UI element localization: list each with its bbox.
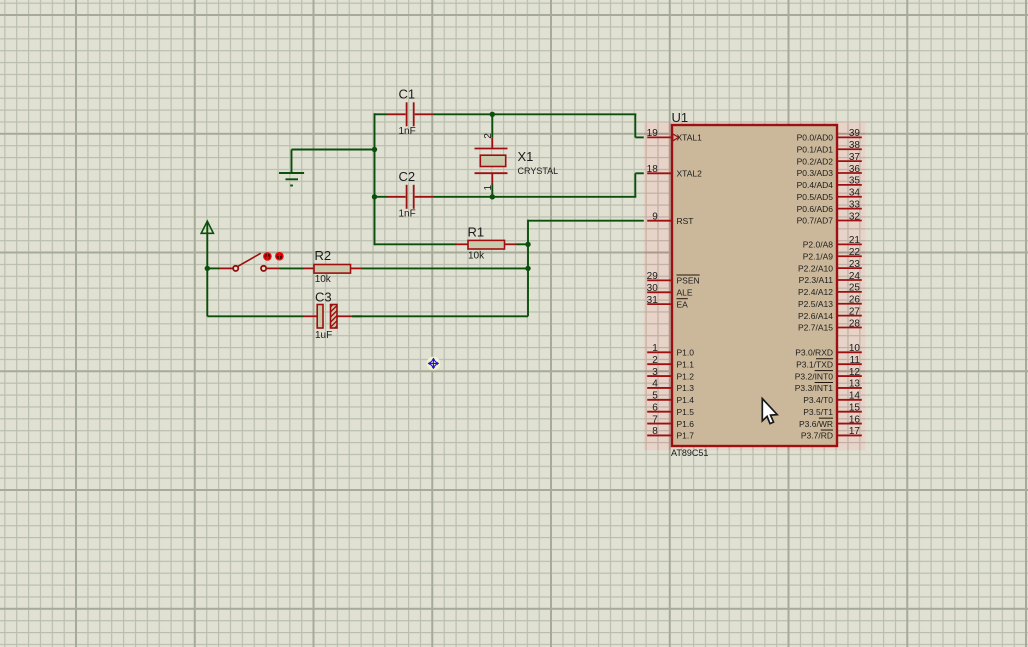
svg-text:X1: X1 bbox=[518, 149, 534, 164]
svg-text:P1.5: P1.5 bbox=[677, 407, 695, 417]
svg-text:15: 15 bbox=[849, 402, 861, 413]
pin 19 XTAL1 bbox=[647, 128, 702, 142]
pin 8 P1.7 bbox=[647, 426, 694, 440]
svg-text:30: 30 bbox=[647, 283, 659, 294]
svg-text:21: 21 bbox=[849, 235, 861, 246]
node junction ground-rail bbox=[372, 147, 377, 152]
svg-text:12: 12 bbox=[849, 367, 861, 378]
wire ground horizontal bbox=[292, 149, 375, 151]
svg-text:PSEN: PSEN bbox=[677, 276, 700, 286]
switch actuator arrow up bbox=[275, 252, 284, 261]
svg-text:P3.6/WR: P3.6/WR bbox=[799, 419, 833, 429]
wire C3 right bbox=[352, 315, 362, 317]
pin 6 P1.5 bbox=[647, 402, 694, 416]
switch lever bbox=[238, 253, 261, 266]
svg-text:P0.0/AD0: P0.0/AD0 bbox=[797, 133, 834, 143]
pin 30 ALE bbox=[647, 283, 693, 297]
ground bbox=[279, 150, 304, 186]
pin 25 P2.4/A12 bbox=[798, 283, 862, 297]
pin 4 P1.3 bbox=[647, 379, 694, 393]
wire switch to R2 bbox=[280, 267, 304, 269]
svg-text:37: 37 bbox=[849, 152, 861, 163]
svg-text:35: 35 bbox=[849, 176, 861, 187]
svg-text:31: 31 bbox=[647, 295, 659, 306]
svg-text:36: 36 bbox=[849, 164, 861, 175]
pin 35 P0.4/AD4 bbox=[797, 176, 862, 190]
node junction crystal top bbox=[490, 112, 495, 117]
svg-text:34: 34 bbox=[849, 188, 861, 199]
svg-text:P3.1/TXD: P3.1/TXD bbox=[796, 359, 833, 369]
svg-text:1nF: 1nF bbox=[399, 126, 416, 137]
svg-text:33: 33 bbox=[849, 199, 861, 210]
svg-text:P1.2: P1.2 bbox=[677, 371, 695, 381]
svg-text:P2.4/A12: P2.4/A12 bbox=[798, 287, 833, 297]
svg-text:P1.0: P1.0 bbox=[677, 348, 695, 358]
svg-text:P0.7/AD7: P0.7/AD7 bbox=[797, 216, 834, 226]
pin 21 P2.0/A8 bbox=[803, 235, 862, 249]
svg-text:3: 3 bbox=[652, 367, 658, 378]
svg-text:1uF: 1uF bbox=[315, 330, 332, 341]
pin 1 P1.0 bbox=[647, 343, 694, 357]
svg-text:P1.3: P1.3 bbox=[677, 383, 695, 393]
svg-text:32: 32 bbox=[849, 211, 861, 222]
svg-text:7: 7 bbox=[652, 414, 658, 425]
pin 7 P1.6 bbox=[647, 414, 694, 428]
svg-text:38: 38 bbox=[849, 140, 861, 151]
svg-text:13: 13 bbox=[849, 379, 861, 390]
node junction R2-RST bbox=[525, 266, 530, 271]
pin 11 P3.1/TXD bbox=[796, 355, 862, 369]
svg-text:8: 8 bbox=[652, 426, 658, 437]
svg-text:U1: U1 bbox=[672, 110, 689, 125]
pin 26 P2.5/A13 bbox=[798, 295, 862, 309]
svg-text:R2: R2 bbox=[315, 248, 332, 263]
svg-text:C1: C1 bbox=[399, 87, 416, 102]
pin 24 P2.3/A11 bbox=[799, 271, 862, 285]
svg-text:P2.0/A8: P2.0/A8 bbox=[803, 240, 834, 250]
wire R1 row bbox=[375, 243, 457, 245]
pin 13 P3.3/INT1 bbox=[795, 379, 862, 393]
pin 16 P3.6/WR bbox=[799, 414, 862, 428]
pin 3 P1.2 bbox=[647, 367, 694, 381]
svg-text:XTAL1: XTAL1 bbox=[677, 133, 703, 143]
wire crystal top green bbox=[491, 114, 493, 137]
pin 32 P0.7/AD7 bbox=[797, 211, 862, 225]
svg-text:P3.3/INT1: P3.3/INT1 bbox=[795, 383, 834, 393]
pin 28 P2.7/A15 bbox=[798, 318, 862, 332]
node junction C2-rail bbox=[372, 194, 377, 199]
pin 27 P2.6/A14 bbox=[798, 306, 862, 320]
pin 15 P3.5/T1 bbox=[803, 402, 862, 416]
svg-text:22: 22 bbox=[849, 247, 861, 258]
svg-text:P2.5/A13: P2.5/A13 bbox=[798, 299, 833, 309]
wire power rail to switch bbox=[206, 221, 208, 269]
power flag bbox=[201, 221, 213, 233]
svg-text:25: 25 bbox=[849, 283, 861, 294]
svg-text:P3.4/T0: P3.4/T0 bbox=[803, 395, 833, 405]
svg-text:27: 27 bbox=[849, 306, 861, 317]
wire C2 right to XTAL2 bbox=[434, 196, 637, 198]
svg-text:C2: C2 bbox=[399, 169, 416, 184]
svg-text:P2.6/A14: P2.6/A14 bbox=[798, 311, 833, 321]
svg-text:XTAL2: XTAL2 bbox=[677, 169, 703, 179]
pin 39 P0.0/AD0 bbox=[797, 128, 862, 142]
switch contact right bbox=[261, 266, 266, 271]
svg-text:5: 5 bbox=[652, 391, 658, 402]
switch actuator arrow down bbox=[263, 252, 272, 261]
svg-text:P0.1/AD1: P0.1/AD1 bbox=[797, 144, 834, 154]
svg-text:18: 18 bbox=[647, 164, 659, 175]
pin 2 P1.1 bbox=[647, 355, 694, 369]
svg-text:4: 4 bbox=[652, 379, 658, 390]
svg-text:P2.1/A9: P2.1/A9 bbox=[803, 251, 834, 261]
svg-text:17: 17 bbox=[849, 426, 861, 437]
svg-text:P3.0/RXD: P3.0/RXD bbox=[795, 348, 833, 358]
wire C2 left bbox=[375, 196, 388, 198]
svg-text:10k: 10k bbox=[315, 274, 332, 285]
svg-text:P0.4/AD4: P0.4/AD4 bbox=[797, 180, 834, 190]
chip selection highlight bbox=[644, 122, 865, 450]
svg-text:CRYSTAL: CRYSTAL bbox=[518, 166, 559, 176]
wire R1 right bbox=[517, 243, 529, 245]
pin 33 P0.6/AD6 bbox=[797, 199, 862, 213]
svg-text:10k: 10k bbox=[468, 251, 485, 262]
svg-text:24: 24 bbox=[849, 271, 861, 282]
svg-text:11: 11 bbox=[850, 355, 861, 366]
svg-text:P3.7/RD: P3.7/RD bbox=[801, 431, 833, 441]
pin 29 PSEN bbox=[647, 271, 700, 285]
svg-text:EA: EA bbox=[677, 299, 689, 309]
svg-text:9: 9 bbox=[652, 212, 658, 223]
pin 31 EA bbox=[647, 295, 688, 309]
svg-text:P1.1: P1.1 bbox=[677, 359, 695, 369]
node junction crystal bottom bbox=[490, 194, 495, 199]
pin 18 XTAL2 bbox=[647, 164, 702, 178]
pin 36 P0.3/AD3 bbox=[797, 164, 862, 178]
capacitor C2 bbox=[387, 185, 434, 209]
svg-text:19: 19 bbox=[647, 128, 659, 139]
svg-text:2: 2 bbox=[483, 133, 494, 139]
pin 10 P3.0/RXD bbox=[795, 343, 862, 357]
pin 38 P0.1/AD1 bbox=[797, 140, 862, 154]
svg-text:28: 28 bbox=[849, 318, 861, 329]
svg-text:P0.5/AD5: P0.5/AD5 bbox=[797, 192, 834, 202]
svg-text:P2.7/A15: P2.7/A15 bbox=[798, 323, 833, 333]
pin 23 P2.2/A10 bbox=[798, 259, 862, 273]
svg-text:23: 23 bbox=[849, 259, 861, 270]
pin 17 P3.7/RD bbox=[801, 426, 862, 440]
wire R2 right bbox=[362, 267, 528, 269]
switch contact left bbox=[220, 267, 233, 269]
svg-text:P2.2/A10: P2.2/A10 bbox=[798, 263, 833, 273]
svg-text:P1.7: P1.7 bbox=[677, 431, 695, 441]
svg-text:14: 14 bbox=[849, 391, 861, 402]
svg-text:6: 6 bbox=[652, 402, 658, 413]
svg-text:P1.6: P1.6 bbox=[677, 419, 695, 429]
resistor R2 bbox=[304, 265, 363, 274]
node junction power-switch bbox=[205, 266, 210, 271]
svg-text:RST: RST bbox=[677, 216, 694, 226]
wire C1 left + left vertical rail bbox=[375, 113, 388, 115]
svg-text:1: 1 bbox=[652, 343, 658, 354]
svg-text:P2.3/A11: P2.3/A11 bbox=[799, 275, 834, 285]
pin 37 P0.2/AD2 bbox=[797, 152, 862, 166]
svg-text:P0.3/AD3: P0.3/AD3 bbox=[797, 168, 834, 178]
node junction R1-RST bbox=[525, 242, 530, 247]
origin marker bbox=[427, 357, 441, 371]
wire crystal bottom green bbox=[491, 185, 493, 197]
op-amp U1 body (AT89C51 chip body) bbox=[672, 125, 837, 446]
crystal X1 bbox=[475, 137, 508, 184]
pin 5 P1.4 bbox=[647, 391, 694, 405]
svg-text:16: 16 bbox=[849, 414, 861, 425]
svg-text:39: 39 bbox=[849, 128, 861, 139]
svg-text:ALE: ALE bbox=[677, 288, 693, 298]
svg-text:10: 10 bbox=[849, 343, 861, 354]
pin 9 RST bbox=[647, 212, 693, 226]
pin 12 P3.2/INT0 bbox=[795, 367, 862, 381]
capacitor C3 bbox=[304, 305, 353, 329]
svg-text:P0.6/AD6: P0.6/AD6 bbox=[797, 204, 834, 214]
svg-text:R1: R1 bbox=[468, 225, 485, 240]
wire C1 right to XTAL1 bbox=[434, 113, 637, 115]
mouse cursor bbox=[762, 399, 777, 424]
svg-text:P0.2/AD2: P0.2/AD2 bbox=[797, 156, 834, 166]
svg-text:AT89C51: AT89C51 bbox=[671, 448, 708, 458]
svg-text:1nF: 1nF bbox=[399, 209, 416, 220]
pin 34 P0.5/AD5 bbox=[797, 188, 862, 202]
svg-text:2: 2 bbox=[652, 355, 658, 366]
wire RST net bbox=[528, 220, 647, 222]
svg-text:P3.2/INT0: P3.2/INT0 bbox=[795, 371, 834, 381]
svg-text:1: 1 bbox=[483, 185, 494, 191]
resistor R1 bbox=[456, 240, 517, 249]
wire bottom row to C3 bbox=[206, 268, 208, 316]
capacitor C1 bbox=[387, 102, 434, 126]
svg-text:C3: C3 bbox=[315, 290, 332, 305]
svg-text:P1.4: P1.4 bbox=[677, 395, 695, 405]
pin 14 P3.4/T0 bbox=[803, 391, 862, 405]
pin 22 P2.1/A9 bbox=[803, 247, 862, 261]
svg-text:26: 26 bbox=[849, 295, 861, 306]
svg-text:P3.5/T1: P3.5/T1 bbox=[803, 407, 833, 417]
svg-text:29: 29 bbox=[647, 271, 659, 282]
